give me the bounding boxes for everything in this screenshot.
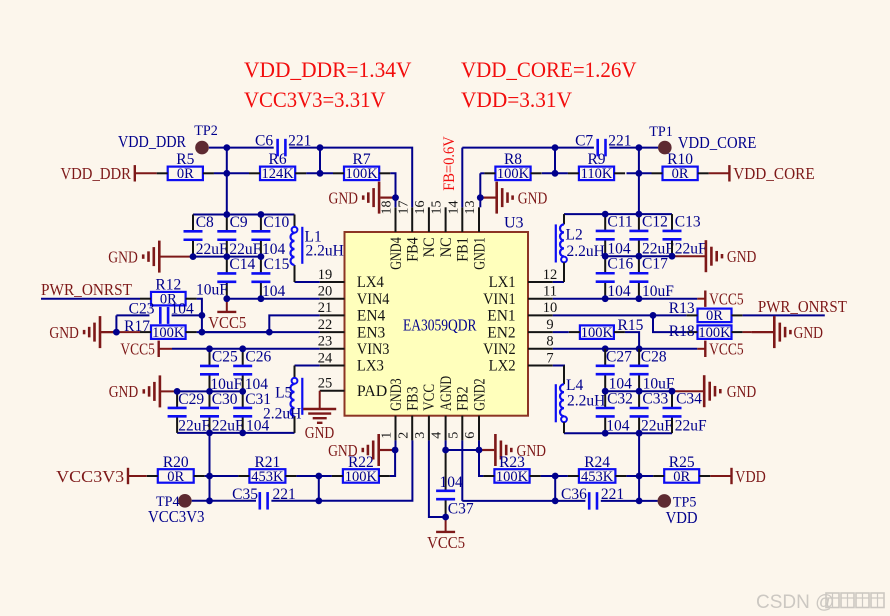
pin 6 GND2 (bottom) — [463, 378, 488, 440]
svg-text:110K: 110K — [581, 166, 613, 182]
capacitor C10 — [251, 214, 289, 258]
ground at pin 1 — [328, 434, 395, 466]
svg-text:R21: R21 — [254, 454, 280, 471]
svg-text:C25: C25 — [212, 348, 238, 365]
junction C15 bottom — [258, 295, 265, 302]
junction C12 top — [636, 211, 643, 218]
svg-text:0R: 0R — [706, 308, 723, 324]
wire FB2 pin 5 vertical — [461, 440, 463, 501]
wire R5 to R6 — [214, 172, 249, 174]
svg-text:3: 3 — [413, 432, 428, 439]
wire GND stem upper-right — [672, 255, 706, 257]
wire GND stem lower-right — [672, 390, 704, 392]
capacitor C14 — [196, 256, 255, 299]
svg-text:6: 6 — [463, 432, 478, 439]
svg-text:22uF: 22uF — [196, 241, 228, 258]
junction C35-FB3 — [315, 497, 322, 504]
junction C11 top — [602, 211, 609, 218]
pin 20 VIN4 (left) — [318, 284, 390, 308]
pin 5 FB2 (bottom) — [446, 386, 471, 440]
svg-text:11: 11 — [543, 284, 557, 300]
svg-text:4: 4 — [430, 432, 445, 439]
test point TP1 — [649, 124, 756, 154]
wire pin6 node to R23 — [479, 450, 483, 476]
svg-text:2: 2 — [396, 432, 411, 439]
svg-text:453K: 453K — [251, 469, 284, 485]
svg-text:C10: C10 — [263, 214, 289, 231]
svg-text:FB4: FB4 — [405, 237, 422, 261]
svg-text:C28: C28 — [641, 348, 667, 365]
svg-text:R7: R7 — [353, 151, 371, 168]
pin 18 GND4 (top) — [380, 201, 405, 270]
svg-text:221: 221 — [288, 133, 311, 150]
wire C6 to FB4 pin 17 — [289, 148, 412, 208]
wire VIN2 row — [553, 348, 698, 350]
capacitor C31 — [233, 391, 271, 435]
svg-text:8: 8 — [546, 334, 553, 350]
svg-text:5: 5 — [446, 432, 461, 439]
svg-text:25: 25 — [318, 376, 333, 392]
svg-text:VCC5: VCC5 — [709, 340, 744, 359]
wire VDD vertical — [638, 433, 640, 476]
wire L1 to LX4 — [295, 281, 320, 283]
junction C34 top — [669, 388, 676, 395]
svg-text:R15: R15 — [618, 317, 644, 334]
junction C25 top — [206, 345, 213, 352]
svg-text:C7: C7 — [575, 133, 593, 150]
watermark CSDN — [756, 592, 884, 613]
svg-text:10uF: 10uF — [196, 282, 228, 299]
resistor R23 — [483, 454, 540, 485]
svg-text:VIN1: VIN1 — [483, 291, 516, 308]
svg-text:124K: 124K — [261, 166, 294, 182]
svg-text:R5: R5 — [176, 151, 194, 168]
svg-text:C29: C29 — [178, 391, 204, 408]
svg-text:C8: C8 — [196, 214, 214, 231]
svg-text:VIN2: VIN2 — [483, 341, 516, 358]
svg-text:R8: R8 — [504, 151, 522, 168]
svg-text:12: 12 — [543, 267, 558, 283]
test point TP2 — [118, 123, 218, 154]
ground left of R17 — [49, 316, 116, 348]
junction C37 bottom VCC — [442, 514, 449, 521]
svg-text:L2: L2 — [566, 227, 583, 244]
svg-text:22uF: 22uF — [675, 241, 707, 258]
wire VDD_DDR rail — [193, 214, 295, 216]
junction R9-R10 — [636, 170, 643, 177]
svg-text:22uF: 22uF — [641, 418, 673, 435]
svg-text:2.2uH: 2.2uH — [306, 243, 344, 260]
svg-text:EN4: EN4 — [357, 308, 386, 325]
pin 11 VIN1 (right) — [483, 284, 557, 308]
inductor L4 — [556, 366, 606, 434]
capacitor C27 — [596, 348, 632, 392]
svg-text:10uF: 10uF — [642, 283, 674, 300]
svg-text:C6: C6 — [255, 133, 273, 150]
pin 9 EN2 (right) — [487, 317, 553, 341]
svg-text:GND: GND — [727, 247, 757, 266]
svg-text:GND4: GND4 — [388, 237, 405, 269]
junction R24-R25 VDD — [636, 473, 643, 480]
svg-text:C26: C26 — [245, 348, 271, 365]
IC U3 EA3059QDR body — [345, 215, 529, 416]
svg-text:C11: C11 — [607, 214, 632, 231]
resistor R22 — [332, 454, 390, 485]
wire FB2 divider vertical — [554, 476, 556, 501]
junction R6-R7 — [317, 170, 324, 177]
svg-text:VCC: VCC — [421, 384, 438, 411]
junction C13 bottom — [669, 253, 676, 260]
svg-text:15: 15 — [430, 201, 445, 215]
svg-text:C34: C34 — [676, 391, 702, 408]
wire LX1 to L2 — [553, 281, 564, 283]
pin 16 NC (top) — [413, 201, 438, 258]
capacitor C35 — [232, 486, 296, 510]
junction R5-R6 — [223, 170, 230, 177]
svg-text:FB3: FB3 — [405, 386, 422, 411]
junction C36-TP5 — [636, 498, 643, 505]
wire R9 to R10 — [627, 172, 652, 174]
junction pin6 GND — [476, 447, 483, 454]
svg-text:C37: C37 — [448, 501, 474, 518]
wire GND rail upper-right — [605, 255, 672, 257]
resistor R7 — [333, 151, 390, 182]
earth ground below PAD — [303, 409, 336, 442]
ground right of C34 — [704, 375, 756, 407]
svg-text:LX1: LX1 — [489, 274, 516, 291]
wire R7 to GND4 pin 18 — [390, 173, 395, 207]
pin 1 GND3 (bottom) — [380, 378, 405, 440]
resistor R25 — [653, 454, 710, 485]
resistor R21 — [238, 454, 296, 485]
junction VDD_DDR/TP2 — [223, 144, 230, 151]
svg-text:GND: GND — [727, 382, 757, 401]
svg-text:100K: 100K — [345, 469, 378, 485]
svg-text:100K: 100K — [496, 469, 529, 485]
svg-text:EN1: EN1 — [487, 308, 515, 325]
svg-text:C17: C17 — [642, 256, 668, 273]
svg-text:GND: GND — [328, 441, 358, 460]
pin 25 PAD (left) — [318, 376, 387, 400]
svg-text:21: 21 — [318, 300, 333, 316]
wire GND stem lower-left — [161, 390, 177, 392]
wire R24 to R25 — [626, 475, 653, 477]
wire pin13 GND1 vertical — [479, 173, 481, 207]
wire pin4 AGND down — [445, 440, 447, 450]
port VDD_DDR (left) — [61, 164, 135, 183]
wire EN1 row — [553, 314, 687, 316]
svg-text:GND: GND — [109, 382, 139, 401]
junction C16 bottom — [602, 295, 609, 302]
junction pin 1 GND — [392, 447, 399, 454]
capacitor C34 — [663, 391, 707, 435]
svg-text:VDD_DDR=1.34V: VDD_DDR=1.34V — [244, 57, 412, 82]
svg-text:AGND: AGND — [438, 376, 455, 411]
wire C36 to TP5 — [601, 500, 658, 502]
resistor R18 — [669, 323, 743, 341]
svg-text:LX3: LX3 — [357, 358, 384, 375]
svg-text:104: 104 — [607, 283, 631, 300]
inductor L2 — [556, 214, 605, 282]
ground at pin 6 — [479, 434, 546, 466]
pin 8 VIN2 (right) — [483, 334, 554, 358]
svg-text:TP2: TP2 — [194, 123, 218, 139]
wire AGND to GND2 — [446, 449, 479, 451]
ground left of C8 — [108, 241, 159, 273]
pin 3 VCC (bottom) — [413, 384, 438, 441]
junction C33 bottom — [636, 430, 643, 437]
svg-text:EN2: EN2 — [487, 324, 515, 341]
wire R20 to R21 — [205, 475, 239, 477]
junction C29 top — [174, 388, 181, 395]
ground at pin 13 — [480, 182, 547, 214]
capacitor C15 — [251, 256, 289, 300]
svg-text:9: 9 — [546, 317, 553, 333]
svg-text:22uF: 22uF — [178, 417, 210, 434]
pin 4 AGND (bottom) — [430, 376, 455, 441]
resistor R13 — [669, 300, 743, 324]
svg-text:GND2: GND2 — [471, 378, 488, 411]
junction EN3 node — [199, 329, 206, 336]
capacitor C37 — [436, 450, 474, 518]
svg-text:18: 18 — [380, 201, 395, 215]
svg-text:VCC3V3=3.31V: VCC3V3=3.31V — [244, 87, 386, 112]
resistor R12 — [140, 276, 197, 307]
svg-text:VCC5: VCC5 — [427, 533, 465, 552]
junction C26-C31 — [239, 388, 246, 395]
wire VCC5 port stub VIN3 — [159, 348, 172, 350]
junction C32 bottom — [602, 430, 609, 437]
svg-text:C14: C14 — [229, 256, 255, 273]
resistor R24 — [568, 454, 627, 485]
wire VIN4 rail — [227, 298, 320, 300]
svg-text:VDD_CORE=1.26V: VDD_CORE=1.26V — [461, 57, 637, 82]
wire VDD_CORE rail — [564, 213, 672, 215]
svg-text:TP1: TP1 — [649, 124, 673, 140]
svg-text:GND: GND — [518, 188, 548, 207]
svg-text:7: 7 — [546, 350, 553, 366]
svg-text:NC: NC — [438, 237, 455, 257]
svg-text:C12: C12 — [642, 214, 668, 231]
svg-text:17: 17 — [396, 201, 411, 215]
svg-text:GND: GND — [794, 323, 824, 342]
junction C14 bottom VCC5 — [223, 295, 230, 302]
wire FB2 row to C36 — [462, 500, 585, 502]
wire VDD rail — [564, 432, 672, 434]
svg-text:22uF: 22uF — [212, 417, 244, 434]
wire R18 to GND stub — [743, 331, 752, 333]
svg-text:VCC5: VCC5 — [709, 290, 744, 309]
junction pin18 GND — [392, 194, 399, 201]
svg-text:L5: L5 — [275, 385, 292, 402]
svg-text:0R: 0R — [673, 469, 690, 485]
ground right of R18 — [752, 316, 823, 348]
wire PAD to ground — [319, 391, 321, 409]
junction C10-C15 — [258, 253, 265, 260]
svg-text:U3: U3 — [504, 215, 524, 232]
wire R15 to VIN2 — [625, 332, 639, 349]
wire VCC5 stub below C37 — [445, 517, 447, 532]
svg-text:FB1: FB1 — [455, 237, 472, 261]
svg-text:GND1: GND1 — [471, 237, 488, 269]
svg-text:VDD: VDD — [735, 467, 766, 486]
capacitor C17 — [629, 256, 674, 301]
junction C25-C30 — [206, 388, 213, 395]
junction C27 top — [602, 345, 609, 352]
svg-text:16: 16 — [413, 201, 428, 215]
wire TP2 to C6 — [209, 147, 274, 149]
wire C23 to GND vertical — [115, 315, 117, 332]
wire GND rail upper-left — [193, 256, 261, 258]
svg-text:100K: 100K — [152, 325, 185, 341]
junction R8-R9 — [552, 170, 559, 177]
svg-text:VDD_CORE: VDD_CORE — [733, 164, 815, 183]
svg-text:14: 14 — [446, 201, 461, 215]
junction C11-C16 — [602, 253, 609, 260]
wire C35 to FB3 pin 2 — [271, 440, 412, 500]
capacitor C8 — [184, 214, 228, 258]
junction R23-R24 — [552, 473, 559, 480]
wire EN1 to R18 — [653, 315, 686, 332]
svg-text:23: 23 — [318, 334, 333, 350]
resistor R20 — [147, 454, 205, 485]
junction C28-C33 — [636, 388, 643, 395]
svg-text:0R: 0R — [672, 166, 689, 182]
junction C12-C17 — [636, 253, 643, 260]
wire VCC5 stub VIN1 — [697, 298, 705, 300]
wire R22 to pin1 GND node — [390, 450, 395, 476]
svg-text:PAD: PAD — [357, 383, 387, 400]
junction C26 top — [239, 345, 246, 352]
wire FB1 node vertical — [554, 148, 556, 174]
svg-text:C23: C23 — [129, 300, 155, 317]
svg-text:GND: GND — [108, 247, 138, 266]
wire EN3 to chip — [269, 331, 319, 333]
svg-text:100K: 100K — [581, 325, 614, 341]
svg-text:GND: GND — [305, 423, 335, 442]
test point TP4 — [148, 494, 205, 526]
capacitor C28 — [630, 348, 675, 392]
wire R12 to EN node — [197, 299, 202, 332]
junction C6 right — [317, 144, 324, 151]
svg-text:100K: 100K — [698, 325, 731, 341]
wire FB3 divider vertical — [318, 476, 320, 501]
wire C23 left — [116, 314, 149, 316]
port VCC5 (VIN3) — [120, 340, 158, 359]
wire R25 to VDD port — [710, 475, 731, 477]
port VCC5 below C37 — [427, 532, 465, 552]
pin 19 LX4 (left) — [318, 267, 384, 291]
svg-text:C32: C32 — [607, 391, 633, 408]
svg-text:VIN3: VIN3 — [357, 341, 390, 358]
wire EN3 to EN4 — [197, 315, 320, 332]
capacitor C29 — [168, 391, 211, 435]
wire PWR_ONRST — [41, 298, 140, 300]
svg-text:2.2uH: 2.2uH — [567, 243, 605, 260]
wire GND rail lower-right — [605, 390, 672, 392]
svg-text:LX4: LX4 — [357, 274, 384, 291]
junction C28 top — [636, 345, 643, 352]
svg-text:VDD=3.31V: VDD=3.31V — [461, 87, 572, 112]
junction C7 right — [636, 144, 643, 151]
svg-text:CSDN @: CSDN @ — [756, 592, 834, 613]
svg-text:R23: R23 — [499, 454, 525, 471]
svg-text:104: 104 — [171, 300, 195, 317]
junction AGND-C37 — [442, 447, 449, 454]
capacitor C30 — [200, 391, 244, 435]
capacitor C26 — [233, 348, 271, 393]
svg-text:0R: 0R — [167, 469, 184, 485]
junction C8 bottom — [190, 253, 197, 260]
wire R21 to R22 — [296, 475, 332, 477]
wire VIN1 row — [553, 298, 698, 300]
svg-text:PWR_ONRST: PWR_ONRST — [758, 297, 848, 316]
resistor R15 — [569, 317, 644, 341]
wire VDD_DDR node vertical — [226, 148, 228, 215]
svg-text:VDD_DDR: VDD_DDR — [61, 164, 132, 183]
svg-text:NC: NC — [421, 237, 438, 257]
svg-text:C30: C30 — [212, 391, 238, 408]
svg-text:1: 1 — [380, 432, 395, 439]
capacitor C6 — [255, 133, 311, 157]
port VCC5 (VIN2) — [705, 340, 743, 359]
svg-text:C33: C33 — [642, 391, 668, 408]
pin 17 FB4 (top) — [396, 201, 421, 262]
capacitor C16 — [596, 256, 634, 301]
svg-text:FB2: FB2 — [455, 386, 472, 411]
svg-text:VCC3V3: VCC3V3 — [56, 467, 124, 486]
wire VIN3 row — [172, 348, 320, 350]
port VCC5 (VIN1) — [705, 290, 743, 309]
capacitor C32 — [596, 391, 633, 435]
junction C30 bottom — [206, 430, 213, 437]
svg-text:221: 221 — [608, 133, 631, 150]
junction FB2 node — [552, 498, 559, 505]
wire LX3 to L5 — [295, 365, 320, 367]
port VDD_CORE (right) — [729, 164, 814, 183]
wire C23 right — [172, 314, 202, 316]
wire R8 left corner — [480, 172, 484, 174]
junction R17 left — [113, 329, 120, 336]
wire EN2 to R15 — [553, 331, 569, 333]
wire FB1 to C7 — [462, 147, 594, 149]
pin 21 EN4 (left) — [318, 300, 386, 324]
svg-text:22uF: 22uF — [675, 418, 707, 435]
wire VCC pin 3 to C37 — [429, 440, 446, 517]
svg-text:C15: C15 — [264, 256, 290, 273]
svg-text:0R: 0R — [177, 166, 194, 182]
pin 2 FB3 (bottom) — [396, 386, 421, 440]
junction R21-R22 FB3 — [315, 473, 322, 480]
capacitor C12 — [629, 214, 674, 258]
svg-text:R10: R10 — [667, 151, 693, 168]
resistor R6 — [249, 151, 306, 182]
wire FB1 pin 14 vertical — [461, 148, 463, 208]
wire GND rail lower-left — [177, 390, 243, 392]
svg-text:13: 13 — [463, 201, 478, 215]
junction C31 bottom — [239, 430, 246, 437]
wire R13 to PWR_ONRST — [743, 314, 825, 316]
wire VDD_CORE node vertical — [638, 148, 640, 215]
svg-text:PWR_ONRST: PWR_ONRST — [41, 280, 133, 299]
test point TP5 — [658, 494, 698, 527]
pin 24 LX3 (left) — [318, 350, 384, 374]
svg-text:20: 20 — [318, 284, 333, 300]
wire VCC3V3 rail — [177, 432, 294, 434]
ground left of C29 — [109, 375, 160, 407]
svg-text:GND3: GND3 — [388, 378, 405, 411]
svg-text:R20: R20 — [163, 454, 189, 471]
